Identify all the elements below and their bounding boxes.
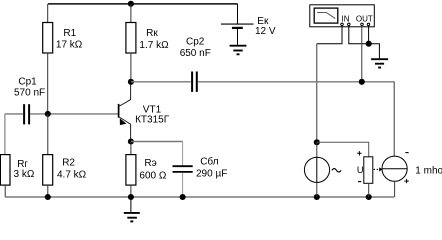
resistor Re xyxy=(126,142,136,198)
svg-text:290 µF: 290 µF xyxy=(196,169,227,180)
svg-text:R1: R1 xyxy=(63,28,76,39)
resistor R2 xyxy=(43,114,53,197)
node OUT-/ground junction xyxy=(366,41,372,47)
svg-text:570 nF: 570 nF xyxy=(14,87,45,98)
base wire xyxy=(48,113,118,115)
wire input left corner xyxy=(4,114,6,155)
label 1 mho plus minus xyxy=(405,152,408,154)
node Re rail junction xyxy=(128,194,134,200)
node Rg/R2 rail junction xyxy=(45,194,51,200)
node Cbl rail junction xyxy=(180,194,186,200)
capacitor Cp2 xyxy=(192,72,197,92)
ground battery xyxy=(230,46,247,55)
dashed control arrow xyxy=(374,167,383,171)
svg-text:4.7 kΩ: 4.7 kΩ xyxy=(57,170,87,181)
wire collector to Cp2 xyxy=(131,81,191,83)
node output junction xyxy=(359,79,365,85)
svg-text:3 kΩ: 3 kΩ xyxy=(14,169,35,180)
node emitter junction xyxy=(128,138,134,144)
wire bottom ground rail xyxy=(5,196,394,198)
svg-text:1 mho: 1 mho xyxy=(415,166,442,177)
svg-text:17 kΩ: 17 kΩ xyxy=(56,40,83,51)
vccs 1 mho xyxy=(382,82,407,197)
node sine top junction xyxy=(314,139,320,145)
node collector junction xyxy=(128,79,134,85)
capacitor Cbl xyxy=(173,142,193,198)
svg-text:650 nF: 650 nF xyxy=(180,48,211,59)
wire emitter to Cbl xyxy=(131,141,183,143)
ground bode plotter xyxy=(371,59,388,67)
wire IN+ to input node xyxy=(317,26,342,44)
wire to bode ground xyxy=(369,44,380,59)
transistor VT1 xyxy=(119,82,131,142)
svg-text:Сбл: Сбл xyxy=(200,156,219,168)
wire OUT+ down to output node xyxy=(361,26,363,82)
svg-text:IN: IN xyxy=(342,14,350,23)
battery Ek xyxy=(221,4,254,45)
bode plotter U1 xyxy=(310,5,375,27)
wire IN- to ground node xyxy=(349,26,369,44)
svg-text:1.7 kΩ: 1.7 kΩ xyxy=(139,40,169,51)
resistor Rg xyxy=(0,155,10,197)
svg-text:Rк: Rк xyxy=(146,28,158,39)
svg-text:КТ315Г: КТ315Г xyxy=(135,115,170,126)
wire sine node to U box xyxy=(317,142,369,157)
svg-text:OUT: OUT xyxy=(356,14,373,23)
svg-text:U: U xyxy=(357,165,364,175)
svg-text:12 V: 12 V xyxy=(255,26,276,37)
svg-text:Cр1: Cр1 xyxy=(18,77,37,88)
svg-text:Rэ: Rэ xyxy=(144,158,156,169)
voltage sensor U xyxy=(364,157,373,197)
wire OUT- down xyxy=(368,26,370,44)
resistor R1 xyxy=(43,4,53,111)
node base junction xyxy=(45,111,51,117)
sine source V1 xyxy=(304,142,341,197)
node Rk top junction xyxy=(128,1,134,7)
wire vertical to sine node xyxy=(316,44,318,143)
svg-text:Cр2: Cр2 xyxy=(186,37,205,48)
svg-text:600 Ω: 600 Ω xyxy=(139,171,166,182)
svg-text:R2: R2 xyxy=(62,158,75,169)
wire top supply rail xyxy=(48,3,238,5)
ground emitter rail xyxy=(124,197,140,221)
terminals bode plotter xyxy=(341,23,370,26)
node sine rail junction xyxy=(314,194,320,200)
capacitor Cp1 xyxy=(5,104,48,124)
node U box rail junction xyxy=(366,194,372,200)
resistor Rk xyxy=(126,4,136,82)
wire output xyxy=(198,81,394,83)
